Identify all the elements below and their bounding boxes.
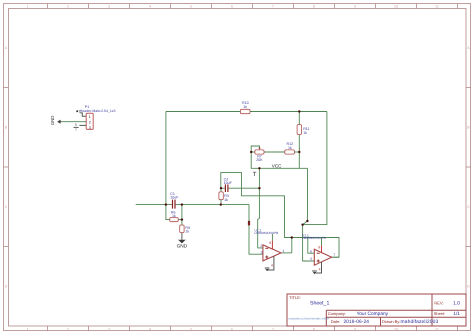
wire R7 left: [251, 151, 255, 153]
svg-text:1k: 1k: [243, 105, 247, 109]
svg-text:Company:: Company:: [328, 311, 346, 316]
svg-text:1k: 1k: [303, 131, 307, 135]
svg-text:Drawn By:: Drawn By:: [382, 319, 400, 324]
P1 pin3 stub: [79, 124, 86, 126]
svg-text:7: 7: [333, 253, 335, 257]
junction VCC rail node: [258, 167, 260, 169]
svg-text:2: 2: [89, 121, 91, 125]
junction R11 bottom / R12 right node: [298, 151, 300, 153]
wire R6 right: [178, 219, 182, 221]
svg-text:1: 1: [27, 327, 29, 331]
resistor R11: [297, 125, 309, 135]
title block: [287, 294, 466, 326]
svg-text:2019-06-24: 2019-06-24: [344, 319, 370, 325]
svg-text:1/1: 1/1: [453, 311, 460, 317]
wire R9 top: [181, 205, 183, 225]
GND arrow netflag: [57, 120, 60, 124]
P1 pin1 no-connect dot: [76, 110, 78, 112]
svg-text:2: 2: [260, 244, 262, 248]
wire opamp2 pin8 up: [321, 238, 323, 246]
svg-text:D: D: [5, 285, 8, 289]
U1.1 pin4: [315, 262, 322, 273]
svg-text:8: 8: [313, 327, 315, 331]
svg-text:Header-Male-2.54_1x3: Header-Male-2.54_1x3: [80, 109, 116, 113]
svg-text:6: 6: [231, 327, 233, 331]
svg-text:Date:: Date:: [331, 319, 341, 324]
ground netflag under R9: [177, 240, 188, 250]
svg-text:VCC: VCC: [272, 164, 282, 169]
wire opamp1 pin8 up: [271, 234, 273, 241]
junction pin5 branch node: [301, 224, 303, 226]
svg-text:7: 7: [272, 4, 274, 8]
wire R10 to right corner: [250, 111, 327, 113]
main wires: [136, 112, 339, 262]
wire feedback to pin6: [308, 238, 315, 254]
wire VCC rail down right: [303, 168, 308, 224]
junction R7 left node: [250, 151, 252, 153]
svg-text:4: 4: [271, 264, 273, 268]
junction C1 left node: [165, 203, 167, 205]
svg-text:3: 3: [89, 126, 91, 130]
junction C2 right node: [258, 187, 260, 189]
svg-text:8: 8: [318, 245, 320, 249]
svg-text:C: C: [5, 205, 8, 209]
wire R3 bottom: [220, 200, 222, 205]
wire R7 to VCC rail: [251, 152, 307, 168]
svg-text:1k: 1k: [224, 198, 228, 202]
wire R7 wiper loop: [251, 146, 259, 152]
junction VCC drop node: [306, 220, 308, 222]
wire down to pin5: [303, 225, 315, 261]
svg-text:Sheet:: Sheet:: [434, 311, 446, 316]
junction R6 right node: [181, 218, 183, 220]
wire R6 branch: [166, 205, 170, 220]
resistor R3: [219, 192, 229, 202]
svg-text:T: T: [253, 171, 257, 178]
svg-text:1: 1: [27, 4, 29, 8]
wire main rail left: [136, 204, 172, 206]
U1.2 gnd flag: [265, 267, 270, 269]
svg-text:3: 3: [75, 123, 77, 127]
svg-text:4: 4: [319, 267, 321, 271]
junction R10 right / R11 top node: [298, 110, 300, 112]
svg-text:1k: 1k: [288, 146, 292, 150]
svg-text:C: C: [467, 205, 470, 209]
wire R11 bottom: [298, 135, 300, 153]
junction R9 top node: [181, 203, 183, 205]
svg-text:LM358MX/NOPB: LM358MX/NOPB: [302, 236, 326, 240]
svg-text:10uF: 10uF: [224, 181, 233, 185]
P1 body: [86, 113, 93, 129]
wire node to R11: [298, 112, 300, 125]
wire R9 to gnd: [181, 233, 183, 240]
svg-text:5: 5: [310, 257, 312, 261]
wire top rail to R10: [166, 111, 241, 113]
wire R12 to node: [294, 151, 299, 153]
svg-text:1k: 1k: [172, 214, 176, 218]
resistor R9: [180, 225, 190, 234]
svg-text:10uF: 10uF: [170, 196, 179, 200]
svg-text:4: 4: [149, 4, 151, 8]
svg-text:LM358MX/NOPB: LM358MX/NOPB: [255, 231, 279, 235]
svg-text:9: 9: [354, 4, 356, 8]
svg-text:4: 4: [149, 327, 151, 331]
svg-text:1.0: 1.0: [453, 300, 460, 306]
net port red tick: [248, 221, 250, 225]
junction U1.2 output feedback node: [291, 236, 293, 238]
wire opamp1 output: [281, 252, 292, 254]
pin3 netflag bar: [74, 126, 79, 128]
wire c2 top loop: [221, 173, 339, 258]
svg-text:5: 5: [190, 327, 192, 331]
wire main rail right of C1: [176, 204, 249, 206]
svg-text:3: 3: [261, 250, 263, 254]
capacitor C2: [224, 178, 233, 192]
svg-text:REV:: REV:: [434, 300, 443, 305]
wire node R12 down to VCC rail: [298, 152, 300, 168]
wire right vertical: [303, 112, 327, 225]
svg-text:easyeda.com/schematic-editor: easyeda.com/schematic-editor: [289, 317, 330, 321]
wire opamp2 output: [332, 256, 339, 258]
svg-text:6: 6: [231, 4, 233, 8]
svg-text:Sheet_1: Sheet_1: [310, 301, 329, 307]
svg-text:2: 2: [67, 4, 69, 8]
svg-text:1: 1: [283, 249, 285, 253]
wire R12 to R7: [264, 151, 285, 153]
junction R3 bottom node: [220, 203, 222, 205]
pin3 netflag stem: [75, 128, 77, 131]
svg-text:9: 9: [354, 327, 356, 331]
svg-text:10: 10: [394, 327, 398, 331]
wire VCC junction down: [258, 168, 263, 248]
svg-text:Your Company: Your Company: [357, 311, 389, 317]
svg-text:D: D: [467, 285, 470, 289]
svg-text:GND: GND: [50, 116, 55, 126]
op-amp U1.1: [302, 233, 335, 274]
svg-text:6: 6: [310, 249, 312, 253]
wire pin2 to GND: [58, 121, 86, 123]
wire output1 vertical: [291, 238, 293, 253]
wire C2 line right: [229, 187, 260, 189]
U1.1 gnd flag: [312, 270, 317, 272]
wire opamp1 pin3: [249, 205, 263, 255]
svg-text:mahdifazeli2003: mahdifazeli2003: [401, 319, 439, 325]
wire C2 line left: [221, 187, 225, 189]
svg-text:TITLE:: TITLE:: [289, 295, 301, 300]
svg-text:11: 11: [435, 327, 439, 331]
svg-text:8: 8: [313, 4, 315, 8]
wire left vertical: [165, 112, 167, 205]
svg-text:5: 5: [190, 4, 192, 8]
U1.2 pin8: [271, 241, 273, 249]
svg-text:3: 3: [108, 327, 110, 331]
junction R3 top / C2 left node: [220, 187, 222, 189]
svg-text:GND: GND: [177, 243, 188, 249]
svg-text:1: 1: [89, 115, 91, 119]
resistor R10: [240, 101, 250, 114]
connector P1: [50, 105, 115, 131]
op-amp U1.2: [255, 228, 285, 271]
svg-text:7: 7: [272, 327, 274, 331]
svg-text:10: 10: [394, 4, 398, 8]
svg-text:1k: 1k: [185, 230, 189, 234]
P1 pin1 wire: [80, 113, 86, 116]
resistor R6: [170, 211, 178, 222]
svg-text:2: 2: [67, 327, 69, 331]
wire R3 top: [220, 188, 222, 192]
svg-text:8: 8: [269, 241, 271, 245]
svg-text:20K: 20K: [256, 158, 263, 162]
resistor R12: [285, 142, 295, 154]
U1.2 pin4: [267, 256, 274, 270]
potentiometer R7: [255, 148, 264, 163]
capacitor C1: [170, 192, 179, 208]
U1.1 pin8: [321, 245, 323, 253]
svg-text:3: 3: [108, 4, 110, 8]
svg-text:11: 11: [435, 4, 439, 8]
